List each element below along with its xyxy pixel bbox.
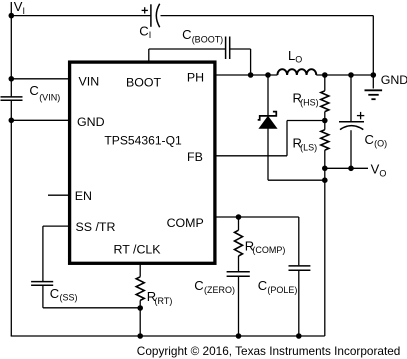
wire RT/CLK pin stub <box>139 264 141 277</box>
wire left vertical upper (VI to CVIN) <box>10 2 12 96</box>
wire left vertical lower (CVIN to bottom rail) <box>10 101 12 336</box>
wire right vertical (VO to bottom rail) <box>324 168 326 336</box>
resistor R(LS) <box>321 130 329 150</box>
node VIN branch junction <box>9 76 15 82</box>
wire CO top lead <box>350 75 352 121</box>
svg-text:C: C <box>139 24 148 39</box>
svg-text:(HS): (HS) <box>300 97 319 107</box>
svg-text:O: O <box>379 168 386 178</box>
wire FB to divider midpoint <box>287 120 325 122</box>
node FB divider junction <box>322 118 328 124</box>
wire RHS bottom lead <box>324 112 326 121</box>
resistor R(HS) <box>321 91 329 112</box>
wire VIN pin <box>11 78 68 80</box>
node GND symbol junction <box>371 72 377 78</box>
resistor R(RT) <box>136 277 144 301</box>
svg-text:GND: GND <box>77 115 105 129</box>
wire PH pin to inductor <box>215 74 277 76</box>
svg-text:(COMP): (COMP) <box>252 245 285 255</box>
node RRT bottom rail junction <box>137 333 143 339</box>
svg-text:(VIN): (VIN) <box>39 92 60 102</box>
node CO bottom junction <box>348 166 354 172</box>
node CSS-RRT junction <box>137 305 143 311</box>
node CBOOT-PH junction <box>248 72 254 78</box>
node diode anode junction <box>322 177 328 183</box>
capacitor C(O) curved plate <box>340 126 363 130</box>
wire FB pin <box>215 155 287 157</box>
wire VO line <box>325 167 368 169</box>
wire inductor to GND node <box>316 74 373 76</box>
wire bottom rail (VO net) <box>11 335 325 337</box>
inductor LO <box>277 69 316 75</box>
svg-text:C: C <box>182 27 191 42</box>
wire diode anode down <box>267 128 269 180</box>
svg-text:SS /TR: SS /TR <box>76 220 116 234</box>
capacitor C(VIN) plates <box>1 96 23 98</box>
wire CPOLE bottom lead <box>298 271 300 336</box>
wire BOOT to CBOOT <box>149 48 225 50</box>
node CZERO bottom rail junction <box>236 333 242 339</box>
wire right top vertical (to GND node) <box>372 16 374 75</box>
svg-text:(POLE): (POLE) <box>267 285 297 295</box>
svg-text:L: L <box>288 48 295 63</box>
capacitor CI plate <box>150 4 152 27</box>
svg-text:(O): (O) <box>374 139 387 149</box>
wire CBOOT to corner <box>230 48 250 50</box>
svg-text:(LS): (LS) <box>300 143 317 153</box>
svg-text:COMP: COMP <box>167 216 204 230</box>
wire CPOLE top lead <box>298 217 300 265</box>
wire EN pin stub <box>48 194 68 196</box>
wire COMP pin <box>215 216 299 218</box>
wire top rail left (VI to CI) <box>11 15 151 17</box>
svg-text:BOOT: BOOT <box>126 75 162 89</box>
ground symbol <box>365 89 383 91</box>
svg-text:VIN: VIN <box>79 75 100 89</box>
capacitor C(POLE) plates <box>289 265 311 267</box>
svg-text:TPS54361-Q1: TPS54361-Q1 <box>104 133 182 147</box>
wire diode cathode to PH <box>267 75 269 115</box>
svg-text:I: I <box>23 6 26 16</box>
svg-text:EN: EN <box>75 189 92 203</box>
capacitor C(ZERO) plates <box>227 271 250 273</box>
node LO-RHS junction <box>322 72 328 78</box>
wire RLS bottom lead <box>324 150 326 168</box>
node CO top junction <box>348 72 354 78</box>
node VI junction <box>9 13 15 19</box>
wire FB vertical <box>286 121 288 156</box>
diode D1 triangle <box>259 116 277 128</box>
capacitor C(SS) plates <box>31 281 53 283</box>
plus sign of C(O) <box>357 115 364 117</box>
svg-text:(SS): (SS) <box>60 293 78 303</box>
svg-text:PH: PH <box>187 70 204 84</box>
svg-text:GND: GND <box>381 73 407 87</box>
svg-text:Copyright © 2016, Texas Instru: Copyright © 2016, Texas Instruments Inco… <box>137 344 401 358</box>
svg-text:I: I <box>149 30 152 40</box>
wire GND pin <box>11 119 68 121</box>
op-amp U1 IC body TPS54361-Q1 <box>70 62 215 263</box>
node COMP-RCOMP junction <box>236 214 242 220</box>
node GND branch junction <box>9 118 15 124</box>
wire diode anode to VO vertical <box>268 179 325 181</box>
svg-text:C: C <box>365 132 374 147</box>
node VO junction <box>322 166 328 172</box>
svg-text:V: V <box>371 162 380 177</box>
svg-text:FB: FB <box>187 150 203 164</box>
node CPOLE bottom rail junction <box>296 333 302 339</box>
wire RCOMP top lead <box>238 217 240 230</box>
svg-text:(RT): (RT) <box>155 296 173 306</box>
wire SS/TR vertical to CSS <box>42 226 44 281</box>
wire CBOOT down to PH <box>250 49 252 75</box>
svg-text:C: C <box>258 278 267 293</box>
resistor R(COMP) <box>235 230 243 256</box>
capacitor C(O) plate <box>339 121 364 123</box>
svg-text:C: C <box>50 286 59 301</box>
wire CSS bottom vertical <box>42 286 44 308</box>
wire RLS top lead <box>324 121 326 130</box>
wire CO bottom lead <box>350 130 352 168</box>
svg-text:(BOOT): (BOOT) <box>192 34 224 44</box>
wire CZERO bottom lead <box>238 277 240 336</box>
wire RHS top lead <box>324 75 326 91</box>
capacitor C(BOOT) plates <box>225 37 227 60</box>
diode D1 schottky cathode bar <box>258 112 277 120</box>
wire RCOMP to CZERO <box>238 256 240 271</box>
wire CSS to RRT junction <box>43 307 140 309</box>
svg-text:RT /CLK: RT /CLK <box>114 243 162 257</box>
wire BOOT pin stub <box>148 49 150 62</box>
wire top rail right (CI to GND corner) <box>161 15 374 17</box>
svg-text:O: O <box>295 55 302 65</box>
svg-text:V: V <box>14 0 23 14</box>
wire RRT bottom lead <box>139 300 141 336</box>
svg-text:C: C <box>194 278 203 293</box>
wire ground symbol stem <box>372 75 374 89</box>
svg-text:(ZERO): (ZERO) <box>204 285 235 295</box>
node diode-PH junction <box>265 72 271 78</box>
svg-text:C: C <box>29 83 38 98</box>
capacitor CI curved plate <box>156 4 159 27</box>
plus sign of CI <box>142 9 148 11</box>
wire SS/TR pin <box>43 225 68 227</box>
